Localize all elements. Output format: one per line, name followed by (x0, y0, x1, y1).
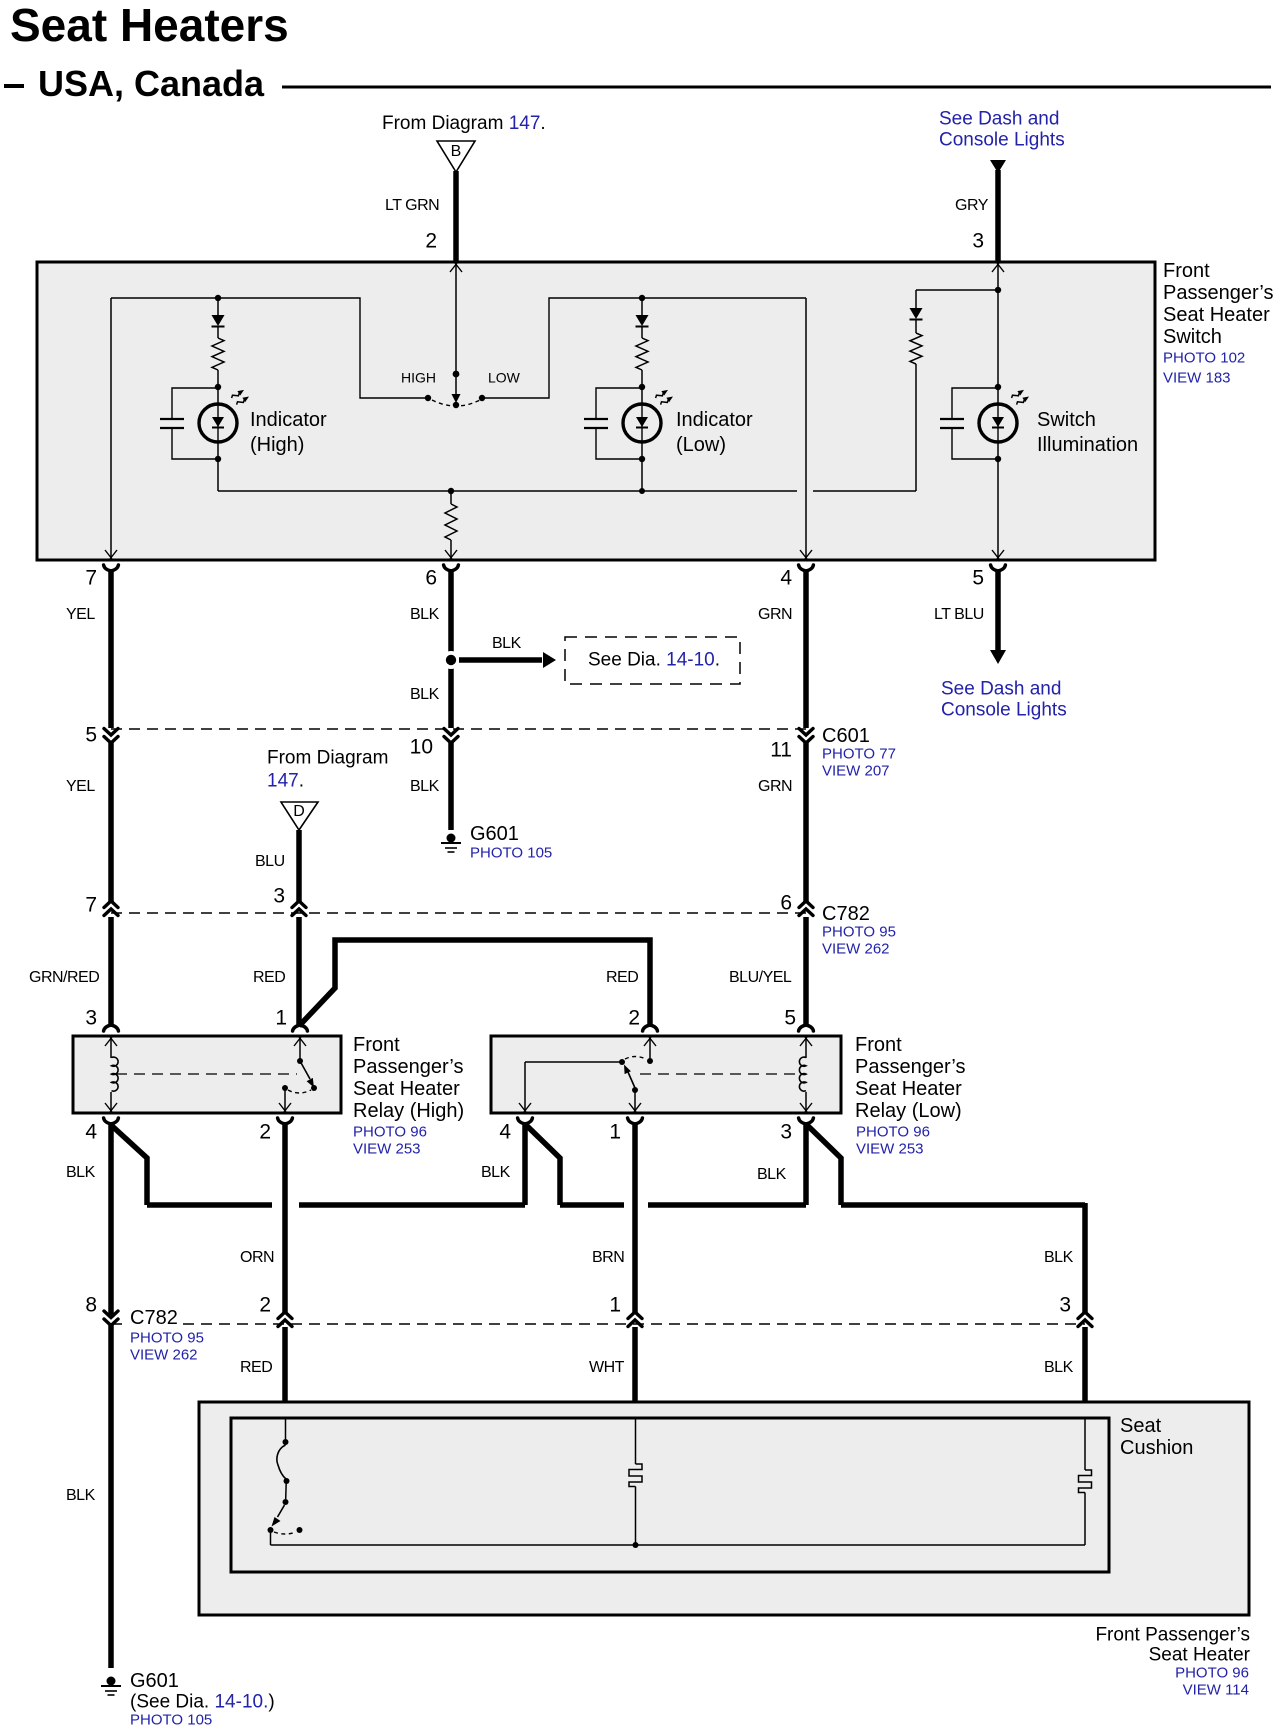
svg-text:Relay (Low): Relay (Low) (855, 1100, 962, 1122)
svg-text:BLK: BLK (66, 1164, 96, 1181)
indicator (low) LED branch (584, 295, 753, 494)
switch box label (1163, 260, 1273, 387)
svg-text:D: D (293, 803, 305, 820)
svg-text:4: 4 (499, 1121, 511, 1144)
svg-text:GRN/RED: GRN/RED (29, 969, 99, 986)
C601 label (822, 725, 896, 780)
svg-text:BLK: BLK (492, 635, 522, 652)
svg-text:VIEW 262: VIEW 262 (130, 1347, 198, 1364)
relay (low) box (491, 1036, 841, 1113)
svg-text:Switch: Switch (1037, 409, 1096, 431)
svg-text:VIEW 183: VIEW 183 (1163, 370, 1231, 387)
svg-text:147.: 147. (267, 771, 304, 792)
svg-text:BLK: BLK (410, 778, 440, 795)
svg-text:PHOTO 102: PHOTO 102 (1163, 350, 1245, 367)
relay low pin 4 connector (499, 1118, 532, 1144)
svg-text:ORN: ORN (240, 1249, 274, 1266)
wire ORN relay high pin2 to connector 2 (240, 1124, 292, 1327)
C782 pin 3 (273, 885, 306, 916)
high/low switch (401, 369, 521, 408)
svg-text:3: 3 (780, 1121, 792, 1144)
svg-text:2: 2 (628, 1007, 640, 1030)
svg-text:YEL: YEL (66, 778, 95, 795)
BLK bus from relay grounds (66, 1124, 1085, 1205)
svg-text:5: 5 (972, 567, 984, 590)
svg-text:Passenger’s: Passenger’s (855, 1056, 965, 1078)
pin 7 of switch (85, 565, 118, 590)
svg-text:PHOTO 95: PHOTO 95 (130, 1330, 204, 1347)
relay high pin 2 connector (259, 1118, 292, 1144)
wire: LOW contact to right rail (482, 298, 806, 398)
svg-text:Seat Heaters: Seat Heaters (10, 0, 289, 51)
svg-text:4: 4 (85, 1121, 97, 1144)
svg-text:10: 10 (410, 736, 433, 759)
wire BLU from D to C782 (255, 830, 299, 903)
svg-text:BLU/YEL: BLU/YEL (729, 969, 792, 986)
svg-text:GRN: GRN (758, 778, 792, 795)
svg-text:3: 3 (972, 230, 984, 253)
svg-text:From Diagram 147.: From Diagram 147. (382, 113, 546, 134)
relay low contact (519, 1036, 656, 1113)
relay high coil link (dashed) (116, 1073, 297, 1075)
svg-text:7: 7 (85, 567, 97, 590)
ground G601 (upper) (441, 823, 552, 862)
svg-text:BLK: BLK (1044, 1359, 1074, 1376)
C601 pin 5 (85, 724, 118, 747)
svg-text:1: 1 (609, 1121, 621, 1144)
pin 4 of switch (780, 565, 813, 590)
subtitle (4, 63, 1271, 104)
connector B from diagram 147 (382, 113, 546, 172)
relay low pin 1 connector (609, 1118, 642, 1144)
svg-text:LOW: LOW (488, 369, 521, 385)
svg-text:(Low): (Low) (676, 434, 726, 456)
wire: right pillar to pin 4 (800, 298, 812, 560)
wire WHT to seat heater (589, 1327, 635, 1418)
front passenger seat heater outer box (199, 1402, 1249, 1615)
svg-text:5: 5 (784, 1007, 796, 1030)
svg-text:RED: RED (240, 1359, 272, 1376)
svg-text:Front: Front (1163, 260, 1210, 282)
relay low pin 5 connector (799, 1025, 814, 1031)
svg-text:See Dash and: See Dash and (941, 678, 1061, 699)
connector C601 dashed line (111, 728, 806, 730)
svg-text:BLK: BLK (757, 1166, 787, 1183)
center resistor to pin 6 (445, 488, 457, 560)
connector row C782 (lower) dashed line (111, 1323, 1085, 1325)
svg-text:VIEW 262: VIEW 262 (822, 941, 890, 958)
svg-text:PHOTO 77: PHOTO 77 (822, 746, 896, 763)
relay high pin 3 connector (104, 1025, 119, 1031)
svg-text:LT BLU: LT BLU (934, 606, 984, 623)
wire BLK pin6 to C601 (410, 570, 451, 728)
svg-text:VIEW 253: VIEW 253 (856, 1141, 924, 1158)
svg-text:GRN: GRN (758, 606, 792, 623)
wire RED to seat heater (240, 1327, 285, 1418)
svg-text:2: 2 (425, 230, 437, 253)
C782 pin 8 (85, 1294, 118, 1326)
relay high pin 4 connector (85, 1118, 118, 1144)
see dash and console lights (top) (939, 108, 1065, 262)
wire RED to relay high pin 1 (253, 917, 299, 1030)
svg-text:PHOTO 105: PHOTO 105 (470, 845, 552, 862)
svg-text:BRN: BRN (592, 1249, 624, 1266)
svg-text:See Dash and: See Dash and (939, 108, 1059, 129)
front passenger seat heater label (1095, 1624, 1250, 1698)
svg-text:C601: C601 (822, 725, 870, 747)
svg-text:Seat: Seat (1120, 1415, 1162, 1437)
relay low coil (799, 1036, 812, 1113)
junction dot and branch to See Dia 14-10 (442, 635, 556, 669)
seat heater bottom rail (271, 1542, 1086, 1548)
wire RED link pin1 to relay low pin 2 (299, 940, 650, 1030)
svg-text:BLK: BLK (66, 1487, 96, 1504)
heater element (main) (629, 1418, 642, 1545)
svg-text:Front: Front (353, 1034, 400, 1056)
front passenger seat heater switch box (37, 262, 1155, 560)
svg-text:BLK: BLK (1044, 1249, 1074, 1266)
wire YEL pin7 to C601 (66, 570, 111, 728)
svg-text:Switch: Switch (1163, 326, 1222, 348)
svg-text:Indicator: Indicator (250, 409, 327, 431)
svg-text:VIEW 253: VIEW 253 (353, 1141, 421, 1158)
relay (high) box (73, 1036, 341, 1113)
svg-text:(See Dia. 14-10.): (See Dia. 14-10.) (130, 1692, 275, 1713)
svg-text:LT GRN: LT GRN (385, 197, 439, 214)
svg-text:Seat Heater: Seat Heater (855, 1078, 962, 1100)
seat cushion label (1120, 1415, 1193, 1459)
svg-text:2: 2 (259, 1121, 271, 1144)
wire BLK C782 pin8 to G601 (66, 1325, 111, 1668)
svg-text:BLU: BLU (255, 853, 285, 870)
svg-text:7: 7 (85, 894, 97, 917)
relay low label (855, 1034, 965, 1158)
svg-text:Cushion: Cushion (1120, 1437, 1193, 1459)
relay low pin 3 connector (780, 1118, 813, 1144)
svg-text:RED: RED (606, 969, 638, 986)
wire: left pillar to pin 7 (105, 298, 117, 560)
C782 label (822, 903, 896, 958)
svg-text:From Diagram: From Diagram (267, 747, 388, 768)
svg-text:HIGH: HIGH (401, 369, 436, 385)
svg-text:RED: RED (253, 969, 285, 986)
svg-text:(High): (High) (250, 434, 304, 456)
wire BLK relay high pin4 to C782 pin 8 (108, 1124, 114, 1315)
svg-text:VIEW 207: VIEW 207 (822, 763, 890, 780)
pin 6 of switch (425, 565, 458, 590)
relay low coil link (dashed) (640, 1073, 803, 1075)
pin 2 entry arrow + wire to switch wiper (450, 262, 462, 371)
svg-text:6: 6 (425, 567, 437, 590)
wire BLK to seat heater (1044, 1327, 1085, 1418)
svg-text:Indicator: Indicator (676, 409, 753, 431)
seat cushion inner box (231, 1418, 1109, 1572)
svg-text:PHOTO 96: PHOTO 96 (353, 1124, 427, 1141)
svg-text:VIEW 114: VIEW 114 (1183, 1682, 1249, 1699)
svg-text:8: 8 (85, 1294, 97, 1317)
ground G601 (bottom) (101, 1670, 275, 1729)
svg-text:Passenger’s: Passenger’s (353, 1056, 463, 1078)
see dia 14-10 reference box (565, 637, 740, 684)
pin 5 of switch (972, 565, 1005, 590)
svg-text:1: 1 (275, 1007, 287, 1030)
svg-text:PHOTO 105: PHOTO 105 (130, 1712, 212, 1729)
wire GRN/RED to relay high pin 3 (29, 917, 111, 1030)
wire YEL C601 to C782 (66, 742, 111, 903)
svg-text:B: B (451, 143, 462, 160)
C782 pin 6 (780, 892, 813, 916)
wire GRN pin4 to C601 (758, 570, 806, 728)
wire LT GRN pin 2 (385, 171, 456, 262)
C601 pin 11 (770, 729, 813, 762)
svg-text:YEL: YEL (66, 606, 95, 623)
svg-text:Console Lights: Console Lights (941, 699, 1067, 720)
relay low pin 2 connector (643, 1025, 658, 1031)
svg-text:5: 5 (85, 724, 97, 747)
wire LT BLU pin5 going to dash/console lights (934, 570, 1067, 720)
wire GRN C601 to C782 (758, 742, 806, 903)
svg-text:C782: C782 (822, 903, 870, 925)
svg-text:See Dia. 14-10.: See Dia. 14-10. (588, 650, 720, 671)
svg-text:PHOTO 96: PHOTO 96 (1175, 1665, 1249, 1682)
svg-text:PHOTO 95: PHOTO 95 (822, 924, 896, 941)
svg-text:Relay (High): Relay (High) (353, 1100, 464, 1122)
svg-text:2: 2 (259, 1294, 271, 1317)
indicator (high) LED branch (160, 295, 327, 491)
svg-text:3: 3 (1059, 1294, 1071, 1317)
relay high pin 1 connector (293, 1025, 308, 1031)
heater element (secondary) (1079, 1418, 1092, 1545)
wire: HIGH contact to left rail (111, 298, 428, 398)
bottom rail inside switch (218, 490, 916, 492)
svg-text:WHT: WHT (589, 1359, 625, 1376)
svg-text:USA, Canada: USA, Canada (38, 63, 265, 104)
thermostat in seat cushion (268, 1418, 303, 1545)
svg-text:Console Lights: Console Lights (939, 129, 1065, 150)
svg-text:G601: G601 (470, 823, 519, 845)
wire BRN relay low pin1 to connector 1 (592, 1124, 642, 1327)
svg-text:Seat Heater: Seat Heater (1163, 304, 1270, 326)
relay high coil (105, 1036, 118, 1113)
wire BLU/YEL to relay low pin 5 (729, 917, 806, 1030)
svg-text:1: 1 (609, 1294, 621, 1317)
svg-text:6: 6 (780, 892, 792, 915)
svg-text:3: 3 (273, 885, 285, 908)
C782 pin 7 (85, 894, 118, 917)
C601 pin 10 (410, 729, 458, 759)
svg-text:C782: C782 (130, 1307, 178, 1329)
relay high label (353, 1034, 464, 1158)
svg-text:Seat Heater: Seat Heater (353, 1078, 460, 1100)
svg-text:Illumination: Illumination (1037, 434, 1138, 456)
svg-text:BLK: BLK (410, 606, 440, 623)
svg-text:BLK: BLK (481, 1164, 511, 1181)
svg-text:PHOTO 96: PHOTO 96 (856, 1124, 930, 1141)
svg-text:11: 11 (770, 739, 792, 762)
connector D from diagram 147 (267, 747, 388, 830)
wire BLK bus corner to connector 3 (1044, 1203, 1092, 1327)
svg-text:Passenger’s: Passenger’s (1163, 282, 1273, 304)
svg-text:Seat Heater: Seat Heater (1149, 1644, 1251, 1665)
switch illumination branch (910, 262, 1139, 560)
connector C782 dashed line (111, 912, 806, 914)
svg-text:Front Passenger’s: Front Passenger’s (1095, 1624, 1250, 1645)
svg-text:GRY: GRY (955, 197, 989, 214)
svg-text:4: 4 (780, 567, 792, 590)
C782 label (lower) (124, 1306, 204, 1364)
svg-text:3: 3 (85, 1007, 97, 1030)
svg-text:BLK: BLK (410, 686, 440, 703)
svg-text:G601: G601 (130, 1670, 179, 1692)
svg-text:Front: Front (855, 1034, 902, 1056)
wire BLK to ground G601 (410, 742, 451, 830)
relay high contact (279, 1036, 317, 1113)
